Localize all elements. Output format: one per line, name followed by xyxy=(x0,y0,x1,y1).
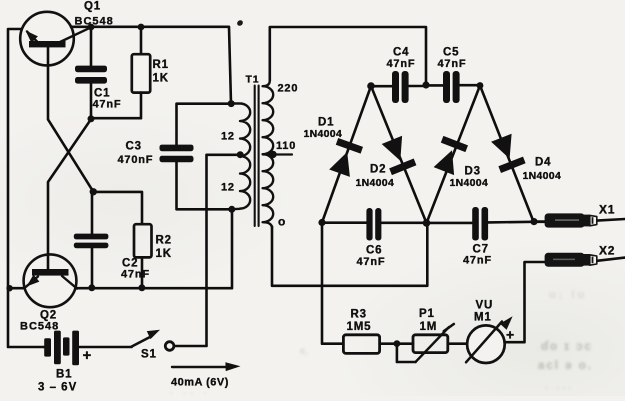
svg-text:3 – 6V: 3 – 6V xyxy=(38,382,77,394)
wire C5 leads xyxy=(426,84,480,87)
node A bridge top left xyxy=(367,82,375,90)
svg-text:470nF: 470nF xyxy=(118,154,154,166)
wire left rail xyxy=(8,29,44,347)
wire P1 to VU meter xyxy=(448,342,468,345)
transformer T1 primary winding xyxy=(232,104,250,210)
wire C3 bracket xyxy=(177,104,232,210)
wire bottom rail to primary bottom tap xyxy=(77,209,232,288)
node primary bottom tap xyxy=(228,206,235,213)
svg-text:R2: R2 xyxy=(156,235,172,247)
transistor Q2 xyxy=(24,254,77,307)
svg-text:o: o xyxy=(278,215,286,229)
diode D3 xyxy=(434,136,468,175)
svg-text:X1: X1 xyxy=(599,203,615,217)
node primary center tap xyxy=(237,151,244,158)
node X1 junction xyxy=(530,218,537,225)
node Q bridge bottom mid xyxy=(423,219,431,227)
svg-text:C3: C3 xyxy=(126,141,142,153)
meter M1 VU xyxy=(466,316,513,363)
svg-text:1N4004: 1N4004 xyxy=(523,170,562,182)
bleed-through ghost text xyxy=(541,341,593,353)
svg-text:D3: D3 xyxy=(465,166,481,178)
capacitor C1 xyxy=(75,66,107,84)
connector X1 plug xyxy=(545,213,597,227)
node left rail Q2 emitter xyxy=(6,285,12,291)
wire S1 to riser xyxy=(174,345,206,348)
wire C4 leads xyxy=(371,85,426,88)
svg-text:Q1: Q1 xyxy=(84,1,101,13)
svg-text:D2: D2 xyxy=(370,164,386,176)
wire X2 output lead xyxy=(597,258,625,261)
node R3 P1 junction xyxy=(394,340,401,347)
svg-text:R1: R1 xyxy=(153,59,169,71)
wire X1 output lead xyxy=(597,219,625,221)
wire bridge leg D1 xyxy=(322,86,371,223)
svg-text:D1: D1 xyxy=(318,117,334,129)
capacitor C2 xyxy=(74,234,109,249)
svg-text:47nF: 47nF xyxy=(121,269,150,281)
svg-text:BC548: BC548 xyxy=(75,16,114,28)
svg-text:B1: B1 xyxy=(56,369,72,381)
capacitor C5 xyxy=(443,71,460,103)
wire bottom rail C6 C7 xyxy=(322,222,545,223)
wire S1 riser to center tap xyxy=(207,155,240,345)
capacitor C6 xyxy=(366,208,381,241)
svg-text:+: + xyxy=(83,347,93,364)
transistor Q1 xyxy=(20,12,91,66)
wire node to R2 top xyxy=(93,192,142,224)
svg-text:C5: C5 xyxy=(443,47,459,59)
svg-text:X2: X2 xyxy=(599,244,615,258)
svg-text:T1: T1 xyxy=(246,74,260,86)
transformer T1 secondary winding xyxy=(263,81,274,229)
node C2 bottom xyxy=(88,284,95,291)
wire battery to switch xyxy=(44,346,132,349)
wire R1 branch xyxy=(92,27,141,118)
svg-text:R3: R3 xyxy=(351,309,367,321)
svg-text:P1: P1 xyxy=(419,308,435,320)
resistor R3 xyxy=(343,335,379,354)
wire secondary 220 to top rail right xyxy=(270,27,426,85)
resistor R2 xyxy=(134,224,152,257)
node top rail R1 xyxy=(138,24,145,31)
svg-text:110: 110 xyxy=(276,140,296,152)
wire cross diagonal to Q2 base xyxy=(48,119,91,270)
wire C1 branch xyxy=(90,27,93,119)
svg-text:BC548: BC548 xyxy=(20,321,59,333)
wire bridge node to R3 xyxy=(322,223,343,344)
svg-text:1M5: 1M5 xyxy=(347,321,372,333)
svg-text:1N4004: 1N4004 xyxy=(304,128,343,140)
svg-text:1K: 1K xyxy=(153,73,169,85)
svg-text:1N4004: 1N4004 xyxy=(356,177,395,189)
svg-text:47nF: 47nF xyxy=(93,99,122,111)
ink speck xyxy=(236,19,244,27)
wire top rail left xyxy=(71,27,231,104)
svg-text:1M: 1M xyxy=(420,321,438,333)
wire bridge leg D3 xyxy=(427,86,481,224)
transformer T1 core xyxy=(255,86,259,227)
connector X2 plug xyxy=(545,253,597,267)
wire Q2 emitter to rail xyxy=(8,287,23,290)
wire R2 bottom xyxy=(141,257,144,287)
potentiometer P1 xyxy=(413,324,454,362)
diode D1 xyxy=(329,138,363,177)
capacitor C4 xyxy=(392,71,409,103)
svg-text:C4: C4 xyxy=(393,47,409,59)
svg-text:220: 220 xyxy=(278,83,299,95)
svg-text:VU: VU xyxy=(476,300,494,312)
svg-text:47nF: 47nF xyxy=(438,58,467,70)
svg-text:1N4004: 1N4004 xyxy=(450,177,489,189)
diode D2 xyxy=(382,136,417,175)
node R2 bottom xyxy=(138,284,145,291)
node primary top tap xyxy=(228,100,235,107)
svg-text:47nF: 47nF xyxy=(387,58,416,70)
resistor R1 xyxy=(132,54,150,92)
capacitor C3 xyxy=(160,145,194,163)
node C bridge top right xyxy=(477,82,484,89)
wire R3 to node to P1 xyxy=(380,342,413,345)
svg-text:12: 12 xyxy=(221,131,235,143)
wire bridge leg D4 xyxy=(480,86,534,222)
svg-text:12: 12 xyxy=(221,182,235,194)
wire X1 node lead xyxy=(534,220,546,223)
node secondary 110 tap xyxy=(269,151,276,158)
node C1 bottom R1 bottom xyxy=(88,115,95,122)
wire P1 wiper lower return xyxy=(397,344,416,362)
svg-text:M1: M1 xyxy=(474,312,492,324)
capacitor C7 xyxy=(472,207,488,241)
svg-text:1K: 1K xyxy=(156,248,172,260)
wire VU meter to X2 xyxy=(505,262,545,342)
transformer 110 tap stub xyxy=(263,153,292,155)
svg-text:47nF: 47nF xyxy=(357,256,386,268)
svg-text:D4: D4 xyxy=(535,157,551,169)
node B C4 C5 junction xyxy=(422,81,429,88)
svg-text:S1: S1 xyxy=(141,349,157,361)
svg-text:47nF: 47nF xyxy=(463,255,492,267)
wire C2 branch xyxy=(91,192,94,288)
node Q2 base link xyxy=(90,188,97,195)
wire Q1 collector cross diagonal xyxy=(48,46,93,192)
battery B1 xyxy=(44,331,79,366)
wire 0 tap return xyxy=(272,223,427,286)
diode D4 xyxy=(491,134,525,173)
svg-text:C6: C6 xyxy=(366,245,382,257)
current arrow 40mA xyxy=(172,362,241,371)
node P bridge bottom left xyxy=(318,219,325,226)
node top rail C1 xyxy=(88,24,95,31)
switch S1 xyxy=(132,330,174,351)
wire bridge leg D2 xyxy=(371,86,427,223)
svg-text:+: + xyxy=(506,327,515,343)
